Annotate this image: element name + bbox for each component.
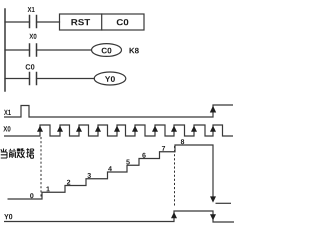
label X1 (rung1 contact) bbox=[28, 7, 35, 12]
char 当 bbox=[1, 149, 7, 159]
label 当前数据 (current data) bbox=[1, 148, 34, 158]
label X0 (rung2 contact) bbox=[29, 34, 36, 39]
arrow X1 rising edge bbox=[210, 106, 216, 113]
step label 6 bbox=[142, 153, 145, 158]
contact C0 bbox=[30, 73, 37, 85]
arrow Y0 rising edge bbox=[171, 212, 177, 218]
step label 2 bbox=[67, 180, 70, 185]
dashed line first count bbox=[40, 137, 42, 199]
label X1 (timing) bbox=[4, 110, 11, 115]
output coil Y0 bbox=[94, 72, 126, 85]
reset drop arrow bbox=[210, 196, 216, 202]
wire rung2 right bbox=[37, 49, 92, 51]
zero level after reset bbox=[216, 202, 232, 204]
X0 waveform bbox=[4, 125, 233, 136]
arrow Y0 falling edge bbox=[210, 214, 216, 220]
step label 8 bbox=[181, 139, 184, 144]
wire rung3 left bbox=[5, 78, 30, 80]
wire rung1 right bbox=[37, 21, 60, 23]
char 前 bbox=[9, 149, 16, 158]
step label 1 bbox=[47, 187, 50, 192]
wire rung2 left bbox=[5, 49, 30, 51]
value K8 bbox=[130, 48, 139, 54]
value RST bbox=[71, 19, 90, 25]
contact X0 bbox=[30, 44, 37, 56]
label Y0 (timing) bbox=[4, 214, 12, 219]
counter coil C0 bbox=[92, 44, 122, 57]
char 数 bbox=[17, 148, 25, 158]
wire rung1 left bbox=[5, 21, 30, 23]
step label 3 bbox=[87, 173, 91, 178]
label C0 (rung3 contact) bbox=[26, 64, 35, 69]
left power rail bbox=[4, 9, 6, 91]
arrows X0 rising edges bbox=[37, 126, 216, 132]
value C0 (coil text) bbox=[102, 48, 112, 54]
dashed line count 8 bbox=[174, 146, 176, 208]
step label 7 bbox=[162, 146, 165, 151]
instruction box RST C0 bbox=[60, 14, 145, 30]
staircase waveform (counter current value) bbox=[8, 145, 214, 201]
value Y0 (coil text) bbox=[105, 76, 115, 82]
X1 waveform bbox=[4, 105, 233, 117]
wire rung3 right bbox=[37, 78, 95, 80]
step label 5 bbox=[126, 160, 130, 165]
step label 4 bbox=[108, 166, 112, 171]
char 据 bbox=[26, 148, 34, 158]
contact X1 bbox=[30, 16, 37, 28]
value C0 (box operand) bbox=[117, 19, 129, 25]
Y0 waveform bbox=[4, 211, 234, 222]
label X0 (timing) bbox=[3, 126, 10, 131]
step label 0 bbox=[30, 193, 33, 198]
